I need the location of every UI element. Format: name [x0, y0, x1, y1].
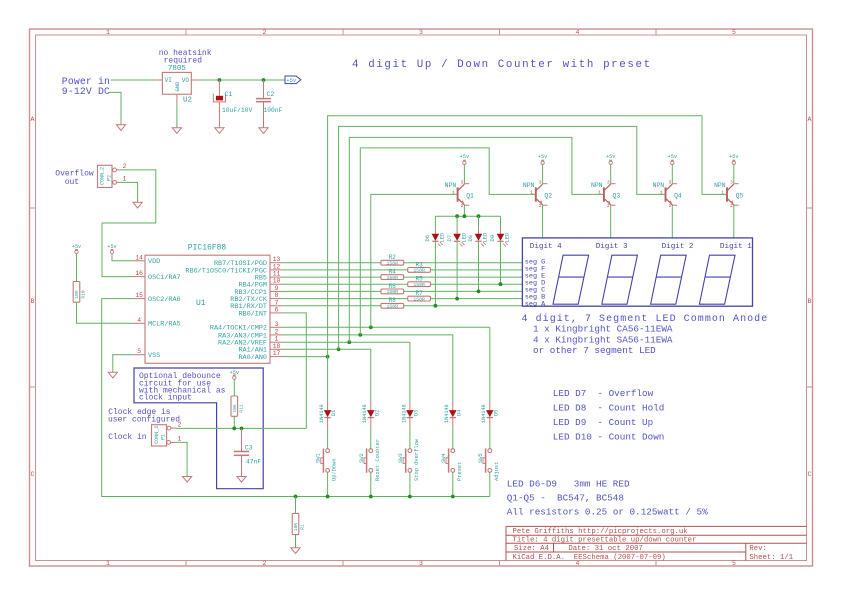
svg-text:Q2: Q2 — [544, 192, 552, 199]
svg-text:3: 3 — [275, 321, 279, 328]
svg-text:16: 16 — [135, 270, 143, 277]
svg-text:2: 2 — [539, 203, 542, 209]
note text parts — [507, 479, 708, 518]
svg-text:Digit 1: Digit 1 — [720, 243, 752, 251]
svg-text:10uF/10V: 10uF/10V — [222, 107, 252, 114]
ground C2 — [259, 128, 268, 134]
wire column D3 top — [409, 342, 411, 401]
svg-text:P2: P2 — [106, 175, 112, 181]
svg-text:2: 2 — [123, 163, 127, 170]
wire RA1 row to switch column D2 — [283, 348, 371, 350]
svg-text:R8: R8 — [389, 297, 397, 304]
wire D2 to SW2 — [370, 428, 372, 449]
wire RB7 to seg — [283, 262, 522, 264]
junction Q base tee 4 — [358, 333, 362, 337]
wire R10 to MCLR — [77, 302, 134, 323]
wire Q4 emitter — [671, 205, 673, 238]
svg-text:Reset Counter: Reset Counter — [375, 439, 381, 481]
svg-text:1: 1 — [123, 176, 127, 183]
svg-text:SW1: SW1 — [316, 453, 322, 463]
svg-text:U1: U1 — [196, 299, 206, 308]
junction C2 tap — [262, 78, 266, 82]
regulator U2 7805 — [157, 65, 200, 104]
svg-text:Up/Down: Up/Down — [332, 458, 338, 481]
wire column D2 top — [370, 349, 372, 401]
wire +5v to R11 — [233, 379, 235, 396]
wire column D1 top — [327, 357, 329, 402]
svg-text:MCLR/RA5: MCLR/RA5 — [148, 321, 181, 329]
wire +5v to Q4 collector — [671, 164, 673, 184]
svg-text:+5v: +5v — [107, 244, 116, 250]
note text display type — [522, 313, 769, 356]
svg-text:1: 1 — [106, 29, 110, 36]
svg-text:C: C — [808, 471, 812, 478]
junction Q base tee 1 — [326, 355, 330, 359]
capacitor C2 100nF — [256, 80, 283, 128]
wire switch common rail to OSC2 — [102, 299, 490, 497]
note text Power in 9-12V DC — [62, 76, 110, 97]
wire RB3 to seg — [283, 290, 522, 292]
svg-text:9-12V DC: 9-12V DC — [62, 86, 110, 97]
wire Q1 emitter — [463, 205, 465, 216]
svg-text:C: C — [31, 471, 35, 478]
junction Q base tee 3 — [347, 340, 351, 344]
svg-text:5: 5 — [732, 560, 736, 567]
svg-text:D3: D3 — [414, 410, 420, 416]
svg-text:LED D10 - Count Down: LED D10 - Count Down — [553, 432, 665, 443]
svg-text:Date: 31 oct 2007: Date: 31 oct 2007 — [568, 545, 642, 553]
wire RB5 to seg — [283, 276, 522, 278]
junction rail — [294, 495, 298, 499]
wire +5v to Q3 collector — [610, 164, 612, 184]
pin 8 RB2/TX/CK — [230, 292, 283, 304]
wire +5v to Q2 collector — [542, 164, 544, 184]
svg-text:C3: C3 — [245, 445, 253, 452]
svg-text:NPN: NPN — [523, 182, 535, 189]
junction rail — [369, 495, 373, 499]
svg-text:Q3: Q3 — [613, 192, 621, 199]
pin 13 RB7/T1OSI/PGD — [214, 256, 283, 268]
transistor Q5 NPN — [714, 179, 743, 209]
svg-text:Rev:: Rev: — [749, 545, 767, 553]
connector P1 CONN_2 — [152, 421, 182, 446]
pin 3 RA4/TOCKI/CMP2 — [210, 321, 283, 333]
svg-text:2: 2 — [263, 560, 267, 567]
transistor Q1 NPN — [445, 179, 474, 209]
pin 17 RA0/AN0 — [238, 350, 283, 362]
svg-text:100nF: 100nF — [264, 107, 283, 114]
svg-text:3: 3 — [539, 179, 542, 185]
wire +5v to Q1 collector — [463, 164, 465, 184]
wire Q3 base net — [349, 137, 604, 342]
svg-text:3: 3 — [607, 179, 610, 185]
LED D7 — [447, 216, 468, 246]
pin 9 RB3/CCP1 — [234, 285, 283, 297]
wire LED D7 to segment row — [456, 241, 458, 298]
power +5v Q5 — [729, 154, 738, 164]
switch SW1 Up/Down — [316, 448, 338, 481]
wire Q4 base net — [339, 126, 666, 349]
svg-text:3: 3 — [461, 179, 464, 185]
svg-text:OSC1/RA7: OSC1/RA7 — [148, 274, 181, 282]
svg-text:Preset: Preset — [457, 462, 463, 481]
ground C3 — [237, 477, 246, 483]
svg-text:150R: 150R — [413, 282, 425, 288]
resistor R4 150R — [381, 269, 404, 281]
power +5v Q2 — [538, 154, 547, 164]
svg-text:1: 1 — [721, 189, 724, 195]
capacitor C3 47nF — [234, 428, 262, 476]
ground power input — [116, 125, 125, 131]
wire D3 to SW3 — [409, 428, 411, 449]
power +5v Q3 — [606, 154, 615, 164]
svg-text:Digit 2: Digit 2 — [662, 243, 694, 251]
svg-text:B: B — [808, 298, 812, 305]
svg-text:D4: D4 — [456, 410, 462, 416]
svg-text:LED D6-D9 3mm HE RED: LED D6-D9 3mm HE RED — [507, 479, 630, 490]
svg-text:+5v: +5v — [230, 370, 239, 376]
pin 15 OSC2/RA6 — [134, 292, 181, 304]
resistor R3 150R — [408, 261, 431, 273]
wire +5v rail from U2 — [200, 79, 286, 81]
power +5v VDD — [107, 244, 116, 254]
svg-text:3: 3 — [730, 179, 733, 185]
svg-text:Q4: Q4 — [674, 192, 682, 199]
resistor R11 10K — [231, 396, 244, 416]
svg-text:2: 2 — [461, 203, 464, 209]
svg-text:Title: 4 digit presettable up/: Title: 4 digit presettable up/down count… — [513, 537, 697, 545]
svg-text:SW3: SW3 — [398, 453, 404, 463]
svg-text:4: 4 — [137, 317, 141, 324]
svg-text:10: 10 — [273, 278, 281, 285]
svg-text:5: 5 — [732, 29, 736, 36]
junction R11 — [232, 427, 236, 431]
svg-text:4: 4 — [576, 29, 580, 36]
svg-text:LED: LED — [461, 233, 467, 243]
svg-text:18: 18 — [273, 343, 281, 350]
wire Q3 emitter — [610, 205, 612, 238]
resistor R10 10K — [73, 282, 86, 303]
wire RA3 row to switch column D4 — [283, 334, 453, 336]
pin 2 RA3/AN3/CMP1 — [218, 328, 283, 340]
wire power input negative — [108, 92, 121, 124]
resistor R7 150R — [408, 290, 431, 302]
wire +5v to R10 — [76, 254, 78, 282]
svg-text:GND: GND — [174, 81, 181, 92]
svg-text:1: 1 — [106, 560, 110, 567]
svg-text:R5: R5 — [415, 276, 423, 283]
junction Q base tee 2 — [337, 347, 341, 351]
svg-text:Size: A4: Size: A4 — [514, 545, 550, 553]
svg-text:LED: LED — [505, 233, 511, 243]
svg-text:B: B — [31, 298, 35, 305]
junction rail — [326, 495, 330, 499]
resistor R2 150R — [381, 254, 404, 266]
svg-text:150R: 150R — [387, 289, 399, 295]
svg-text:Digit 4: Digit 4 — [530, 243, 562, 251]
svg-text:Q1: Q1 — [466, 192, 474, 199]
svg-text:VO: VO — [182, 77, 190, 84]
svg-text:14: 14 — [135, 254, 143, 261]
junction rail — [408, 495, 412, 499]
junction LED rail — [477, 214, 481, 218]
svg-text:Sheet: 1/1: Sheet: 1/1 — [749, 554, 793, 562]
svg-text:out: out — [65, 178, 79, 187]
junction D9 tap — [499, 282, 503, 286]
svg-text:OSC2/RA6: OSC2/RA6 — [148, 296, 181, 304]
svg-text:+5v: +5v — [72, 244, 81, 250]
svg-text:150R: 150R — [387, 261, 399, 267]
global label +5v — [285, 76, 301, 84]
svg-text:VI: VI — [165, 77, 172, 84]
diode D3 1N4148 — [401, 402, 419, 428]
wire RA0 row to switch column D1 — [283, 356, 328, 358]
capacitor C1 10uF/10V — [213, 80, 252, 128]
connector P2 CONN_2 — [98, 163, 127, 187]
svg-text:LED D9 - Count Up: LED D9 - Count Up — [553, 417, 653, 428]
diode D5 1N4148 — [481, 402, 499, 428]
junction LED rail — [463, 214, 467, 218]
svg-text:10K: 10K — [74, 290, 80, 299]
wire R1 to ground — [295, 535, 297, 548]
svg-text:8: 8 — [275, 292, 279, 299]
svg-text:A: A — [31, 116, 35, 123]
svg-text:RB0/INT: RB0/INT — [238, 310, 267, 318]
transistor Q3 NPN — [591, 179, 620, 209]
svg-text:R3: R3 — [415, 261, 423, 268]
wire Q5 base net — [328, 116, 727, 357]
svg-text:+5v: +5v — [668, 154, 677, 160]
pin 6 RB0/INT — [238, 306, 283, 318]
svg-text:P1: P1 — [160, 434, 166, 440]
svg-text:1: 1 — [275, 336, 279, 343]
svg-text:CONN_2: CONN_2 — [100, 167, 106, 185]
ground U2 — [172, 128, 181, 134]
svg-text:clock input: clock input — [139, 394, 192, 403]
svg-text:2: 2 — [178, 421, 182, 428]
svg-text:VSS: VSS — [148, 352, 160, 360]
svg-text:or other 7 segment LED: or other 7 segment LED — [533, 345, 656, 356]
wire RB4 to seg — [283, 283, 522, 285]
svg-text:4 x Kingbright SA56-11EWA: 4 x Kingbright SA56-11EWA — [533, 334, 673, 345]
wire LED anode rail — [435, 215, 500, 217]
svg-text:7: 7 — [275, 299, 279, 306]
svg-text:Pete Griffiths http://picproje: Pete Griffiths http://picprojects.org.uk — [513, 528, 689, 536]
wire VSS to ground — [113, 355, 134, 372]
svg-text:Q1-Q5 - BC547, BC548: Q1-Q5 - BC547, BC548 — [507, 492, 624, 503]
wire RB1 to seg — [283, 305, 522, 307]
svg-text:U2: U2 — [183, 97, 192, 105]
wire RB2 to seg — [283, 298, 522, 300]
svg-text:All resistors 0.25 or 0.125wat: All resistors 0.25 or 0.125watt / 5% — [507, 507, 708, 518]
junction C1 tap — [218, 78, 222, 82]
svg-text:D7: D7 — [447, 235, 453, 241]
svg-text:RA0/AN0: RA0/AN0 — [238, 354, 267, 362]
wire power input to U2 — [111, 79, 157, 81]
svg-text:LED: LED — [440, 233, 446, 243]
svg-text:6: 6 — [275, 306, 279, 313]
svg-text:R6: R6 — [389, 283, 397, 290]
svg-text:R2: R2 — [389, 254, 397, 261]
wire P2 pin1 to ground — [121, 182, 138, 202]
svg-text:NPN: NPN — [591, 182, 603, 189]
svg-text:150R: 150R — [387, 304, 399, 310]
ground R1 — [291, 548, 300, 554]
junction D7 tap — [455, 297, 459, 301]
wire column D5 top — [489, 327, 491, 401]
pin 14 VDD — [134, 254, 161, 266]
junction LED rail — [455, 214, 459, 218]
svg-text:PIC16F88: PIC16F88 — [188, 244, 227, 253]
wire R11 to clock node — [233, 416, 235, 428]
svg-text:2: 2 — [263, 29, 267, 36]
wire SW2 to common rail — [370, 472, 372, 496]
junction Q base tee 5 — [369, 325, 373, 329]
pin 5 VSS — [134, 348, 161, 360]
svg-text:1: 1 — [530, 189, 533, 195]
svg-text:10K: 10K — [232, 404, 238, 413]
power +5v Q1 — [460, 154, 469, 164]
svg-text:12: 12 — [273, 263, 281, 270]
wire D5 to SW5 — [489, 428, 491, 449]
svg-text:2: 2 — [669, 203, 672, 209]
wire RB0/INT to clock node — [283, 313, 306, 429]
diode D2 1N4148 — [362, 402, 380, 428]
svg-text:2: 2 — [730, 203, 733, 209]
svg-text:R7: R7 — [415, 290, 423, 297]
svg-text:D6: D6 — [425, 235, 431, 241]
svg-text:LED D8 - Count Hold: LED D8 - Count Hold — [553, 402, 665, 413]
svg-text:Adjust: Adjust — [494, 462, 500, 481]
svg-text:1: 1 — [598, 189, 601, 195]
IC U1 PIC16F88 — [145, 244, 270, 364]
transistor Q2 NPN — [523, 179, 552, 209]
svg-text:3: 3 — [419, 560, 423, 567]
svg-text:SW2: SW2 — [359, 453, 365, 463]
wire P1 pin1 to ground — [176, 442, 187, 476]
resistor R5 150R — [408, 276, 431, 288]
svg-text:SW5: SW5 — [478, 453, 484, 463]
svg-text:1N4148: 1N4148 — [319, 404, 325, 423]
diode D1 1N4148 — [319, 402, 337, 428]
svg-text:NPN: NPN — [714, 182, 726, 189]
wire Q5 emitter — [733, 205, 735, 238]
note text Clock in — [108, 433, 147, 442]
LED D9 — [490, 216, 511, 246]
note text Clock edge is user configured — [108, 408, 180, 424]
svg-text:4 digit Up / Down Counter with: 4 digit Up / Down Counter with preset — [352, 59, 652, 71]
svg-text:VDD: VDD — [148, 258, 160, 266]
svg-text:D2: D2 — [374, 410, 380, 416]
wire SW5 to common rail — [489, 472, 491, 496]
wire LED D9 to segment row — [500, 241, 502, 284]
svg-text:Digit 3: Digit 3 — [596, 243, 628, 251]
ground P2 — [133, 202, 142, 208]
svg-text:C2: C2 — [267, 91, 275, 98]
power +5v R10 — [72, 244, 81, 254]
svg-text:R1: R1 — [300, 524, 306, 530]
svg-text:17: 17 — [273, 350, 281, 357]
svg-text:3: 3 — [419, 29, 423, 36]
pin 18 RA1/AN1 — [238, 343, 283, 355]
resistor R1 10K — [292, 513, 305, 534]
note text Overflow out — [55, 169, 94, 187]
power +5v R11 — [230, 370, 239, 380]
junction rail — [451, 495, 455, 499]
svg-text:2: 2 — [275, 328, 279, 335]
svg-text:D5: D5 — [493, 410, 499, 416]
display 4 digit 7 segment — [522, 238, 752, 308]
transistor Q4 NPN — [653, 179, 682, 209]
pin 16 OSC1/RA7 — [134, 270, 181, 282]
junction C3 — [240, 427, 244, 431]
pin 10 RB4/PGM — [238, 278, 283, 290]
ground C1 — [215, 128, 224, 134]
svg-text:3: 3 — [669, 179, 672, 185]
svg-text:150R: 150R — [387, 275, 399, 281]
wire U2 GND to ground — [176, 104, 178, 128]
ground P1 — [183, 477, 192, 483]
wire D1 to SW1 — [327, 428, 329, 449]
svg-text:150R: 150R — [413, 268, 425, 274]
wire P2 pin2 to PIC OSC1 — [102, 170, 156, 277]
svg-text:A: A — [808, 116, 812, 123]
svg-text:15: 15 — [135, 292, 143, 299]
pin 11 RB5 — [255, 271, 283, 283]
svg-text:1: 1 — [452, 189, 455, 195]
resistor R8 150R — [381, 297, 404, 309]
wire clock in — [176, 427, 306, 429]
svg-text:1N4148: 1N4148 — [362, 404, 368, 423]
wire Q1 base net — [371, 194, 458, 327]
svg-text:5: 5 — [137, 348, 141, 355]
resistor R6 150R — [381, 283, 404, 295]
svg-text:Clock in: Clock in — [108, 433, 147, 442]
wire LED D8 to segment row — [478, 241, 480, 291]
svg-text:+5v: +5v — [606, 154, 615, 160]
svg-text:user configured: user configured — [108, 415, 180, 424]
wire Q2 base net — [360, 148, 536, 335]
wire RA4 row to switch column D5 — [283, 326, 490, 328]
svg-text:LED: LED — [483, 233, 489, 243]
svg-text:NPN: NPN — [653, 182, 665, 189]
switch SW4 Preset — [441, 448, 463, 481]
svg-text:+5v: +5v — [286, 77, 297, 84]
svg-text:+5v: +5v — [460, 154, 469, 160]
svg-text:SW4: SW4 — [441, 453, 447, 463]
svg-text:13: 13 — [273, 256, 281, 263]
wire SW4 to common rail — [452, 472, 454, 496]
svg-text:KiCad E.D.A. EESchema (2007-0: KiCad E.D.A. EESchema (2007-07-09) — [513, 554, 666, 562]
svg-text:Stop Overflow: Stop Overflow — [414, 438, 420, 481]
wire +5v to Q5 collector — [733, 164, 735, 184]
pin 12 RB6/T1OSC0/T1CKI/PGC — [185, 263, 283, 275]
note text no heatsink required — [159, 49, 212, 65]
switch SW3 Stop Overflow — [398, 438, 420, 481]
power +5v Q4 — [668, 154, 677, 164]
svg-text:150R: 150R — [413, 296, 425, 302]
junction D8 tap — [477, 290, 481, 294]
LED D8 — [468, 216, 489, 246]
svg-text:10K: 10K — [293, 523, 299, 532]
svg-text:R4: R4 — [389, 269, 397, 276]
wire SW3 to common rail — [409, 472, 411, 496]
svg-text:1 x Kingbright CA56-11EWA: 1 x Kingbright CA56-11EWA — [533, 324, 673, 335]
svg-text:D8: D8 — [468, 235, 474, 241]
sheet title text — [352, 59, 652, 71]
svg-text:LED D7 - Overflow: LED D7 - Overflow — [553, 388, 654, 399]
svg-text:+5v: +5v — [538, 154, 547, 160]
